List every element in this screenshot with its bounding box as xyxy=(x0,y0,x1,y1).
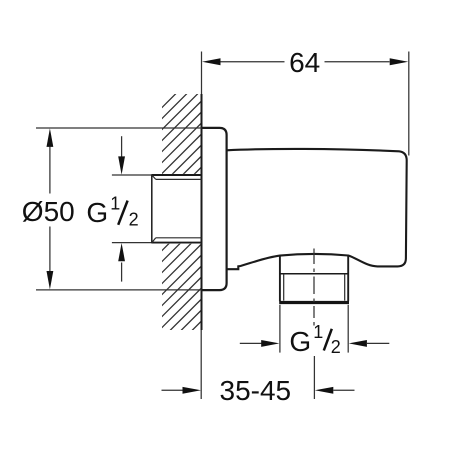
svg-text:2: 2 xyxy=(331,337,341,357)
inlet extension lines xyxy=(112,174,152,176)
outlet thread root lines xyxy=(283,274,285,301)
svg-text:G: G xyxy=(86,197,108,228)
outlet bottom face (thick) xyxy=(279,301,349,304)
svg-text:Ø50: Ø50 xyxy=(22,196,75,227)
svg-text:35-45: 35-45 xyxy=(220,375,292,406)
extension line: wall face down to dim 35-45 xyxy=(200,330,202,399)
inlet thread chamfers xyxy=(152,175,156,179)
svg-text:1: 1 xyxy=(110,194,120,214)
flange xyxy=(202,128,227,290)
outlet extension lines down xyxy=(279,305,281,353)
dim 64 line xyxy=(220,61,285,63)
inlet thread outer xyxy=(152,174,202,176)
outlet collar outer lines xyxy=(279,256,281,302)
dim O50 extension bottom xyxy=(36,289,220,291)
dim 35-45 xyxy=(162,389,183,391)
outlet center line (dashed) xyxy=(313,249,315,400)
inlet dim up arrow xyxy=(121,263,123,282)
dim O50 vertical line xyxy=(49,147,51,194)
wall face line xyxy=(201,94,203,330)
svg-text:2: 2 xyxy=(129,210,139,230)
dim O50 down arrow xyxy=(47,271,54,290)
extension line: wall face up to dim 64 xyxy=(201,52,203,95)
outlet thread top line xyxy=(280,273,348,275)
svg-text:1: 1 xyxy=(313,322,323,342)
inlet thread root lines xyxy=(156,178,202,180)
dim 64 right arrow xyxy=(390,58,409,65)
body outline xyxy=(227,149,407,269)
inlet dim down arrow xyxy=(121,136,123,157)
extension line: right of body for dim 64 xyxy=(408,52,410,156)
dim O50 extension top xyxy=(36,127,218,129)
dim O50 up arrow xyxy=(47,128,54,147)
svg-text:64: 64 xyxy=(289,47,320,78)
inlet thread left cap xyxy=(151,174,153,243)
dim 64 left arrow xyxy=(202,58,221,65)
wall hatch xyxy=(156,68,202,378)
dim G1/2 bottom arrows xyxy=(240,342,262,344)
svg-text:G: G xyxy=(289,326,311,357)
